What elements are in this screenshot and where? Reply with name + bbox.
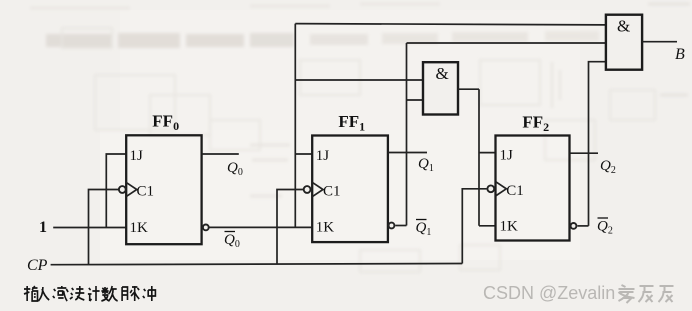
pin FF0 1J	[130, 148, 144, 164]
wire Q0bar to FF1 1J	[295, 153, 312, 155]
冲	[143, 286, 156, 301]
svg-text:1K: 1K	[316, 220, 335, 236]
输	[24, 286, 38, 301]
pin FF2 1J	[500, 148, 514, 164]
label Q1-bar	[416, 220, 432, 239]
and-gate G2 (borrow)	[606, 15, 642, 70]
法	[70, 286, 84, 300]
label Q0-bar	[224, 232, 240, 251]
pin FF0 Q-bar (bubble)	[203, 225, 209, 231]
wire Q1bar to AND G1 input2	[407, 99, 424, 101]
pin FF1 Q-bar (bubble)	[389, 223, 395, 229]
爱	[619, 285, 635, 303]
svg-text:C1: C1	[323, 184, 341, 200]
入	[38, 287, 49, 301]
label Q2-bar	[597, 218, 613, 237]
svg-text:1K: 1K	[130, 220, 149, 236]
wire Q0-bar feedback riser (node Q0bar)	[294, 24, 296, 228]
wire FF0 J-K tie	[106, 154, 126, 228]
svg-text:1: 1	[39, 219, 47, 236]
wire Q1 stub	[388, 152, 427, 154]
pin FF2 1K	[500, 219, 519, 235]
watermark CSDN	[483, 283, 674, 303]
计	[88, 286, 100, 301]
svg-text:CP: CP	[27, 257, 48, 274]
svg-text:C1: C1	[137, 184, 155, 200]
svg-text:B: B	[675, 46, 685, 63]
wire FF1 clock from CP	[277, 190, 304, 265]
pin FF1 1J	[316, 148, 330, 164]
wire top rail B (Q1bar to AND B)	[407, 42, 606, 44]
wire G1 output to FF2 1K	[479, 225, 496, 227]
svg-text:1J: 1J	[500, 148, 514, 164]
flip-flop FF0	[126, 111, 201, 244]
pin FF0 C1	[119, 182, 154, 199]
pin FF0 1K	[130, 220, 149, 236]
wire Q2-bar riser to AND B input3	[589, 62, 606, 226]
wire G1 output riser	[478, 89, 480, 226]
and-gate G1	[423, 62, 458, 114]
wire Q0 stub	[202, 153, 239, 155]
wire FF0 clock from CP	[89, 190, 119, 265]
label Q2	[600, 158, 616, 176]
wire G1 output to FF2 1J	[479, 152, 496, 154]
caption: input subtraction counting pulses (hand-drawn hanzi)	[24, 286, 155, 301]
pin FF1 C1	[304, 182, 341, 199]
wire Q2-bar stub	[577, 225, 588, 227]
flip-flop FF1	[312, 112, 388, 242]
pin FF2 C1	[487, 182, 523, 199]
减	[53, 286, 68, 301]
灰	[639, 286, 654, 302]
wire Q1-bar riser	[406, 43, 408, 226]
wire Q1-bar stub	[395, 225, 406, 227]
wire FF2 clock from CP	[462, 189, 486, 264]
脉	[122, 286, 139, 301]
wire top rail A (Q0bar to AND B)	[295, 24, 606, 25]
svg-text:&: &	[436, 64, 449, 83]
svg-text:1K: 1K	[500, 219, 519, 235]
label 1 (constant input)	[39, 219, 47, 236]
wire G1 output	[458, 88, 479, 90]
pin FF1 1K	[316, 220, 335, 236]
wire CP bus	[51, 264, 463, 265]
数	[101, 286, 117, 301]
wire B output	[642, 41, 677, 43]
pin FF2 Q-bar (bubble)	[571, 223, 577, 229]
flip-flop FF2	[496, 113, 570, 241]
svg-text:CSDN @Zevalin: CSDN @Zevalin	[483, 283, 615, 303]
svg-text:&: &	[617, 17, 630, 36]
label Q1	[418, 156, 434, 174]
wire Q0bar to AND G1 input1	[295, 79, 423, 81]
svg-text:C1: C1	[506, 183, 524, 199]
label Q0	[227, 160, 243, 178]
灰	[659, 286, 674, 302]
wire constant-1 to FF0 1K	[53, 227, 126, 229]
svg-text:1J: 1J	[130, 148, 144, 164]
wire Q0-bar to FF1 1K	[209, 226, 313, 228]
svg-text:1J: 1J	[316, 148, 330, 164]
label B	[675, 46, 685, 63]
wire Q2 stub	[570, 152, 599, 154]
label CP	[27, 257, 48, 274]
